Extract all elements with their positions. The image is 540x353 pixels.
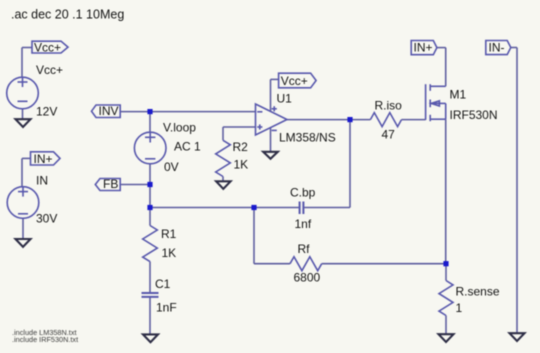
svg-text:12V: 12V bbox=[36, 105, 57, 119]
svg-text:1K: 1K bbox=[234, 158, 249, 172]
svg-text:R.sense: R.sense bbox=[456, 285, 500, 299]
svg-text:30V: 30V bbox=[36, 212, 57, 226]
svg-text:1nf: 1nf bbox=[295, 217, 312, 231]
svg-text:1: 1 bbox=[456, 301, 463, 315]
svg-text:1K: 1K bbox=[162, 246, 177, 260]
svg-text:AC 1: AC 1 bbox=[174, 140, 201, 154]
svg-text:R.iso: R.iso bbox=[375, 99, 403, 113]
svg-text:6800: 6800 bbox=[294, 271, 321, 285]
svg-text:C.bp: C.bp bbox=[290, 186, 316, 200]
svg-text:R1: R1 bbox=[161, 227, 177, 241]
svg-text:47: 47 bbox=[382, 128, 396, 142]
svg-text:INV: INV bbox=[99, 104, 119, 118]
svg-text:U1: U1 bbox=[277, 92, 293, 106]
svg-text:.ac dec 20 .1 10Meg: .ac dec 20 .1 10Meg bbox=[11, 8, 124, 22]
svg-text:IN+: IN+ bbox=[34, 152, 53, 166]
svg-text:R2: R2 bbox=[233, 140, 249, 154]
svg-text:1nF: 1nF bbox=[156, 301, 177, 315]
svg-text:V.loop: V.loop bbox=[163, 121, 196, 135]
svg-text:C1: C1 bbox=[155, 277, 171, 291]
svg-text:IN: IN bbox=[36, 174, 48, 188]
svg-text:.include IRF530N.txt: .include IRF530N.txt bbox=[12, 335, 78, 344]
svg-text:Vcc+: Vcc+ bbox=[36, 63, 63, 77]
svg-text:Rf: Rf bbox=[298, 242, 311, 256]
svg-text:Vcc+: Vcc+ bbox=[34, 40, 61, 54]
svg-text:FB: FB bbox=[103, 177, 118, 191]
svg-text:IN-: IN- bbox=[489, 41, 505, 55]
svg-text:0V: 0V bbox=[164, 160, 179, 174]
svg-text:IRF530N: IRF530N bbox=[450, 108, 498, 122]
svg-text:IN+: IN+ bbox=[414, 41, 433, 55]
svg-text:M1: M1 bbox=[450, 88, 467, 102]
svg-text:Vcc+: Vcc+ bbox=[281, 74, 308, 88]
svg-text:LM358/NS: LM358/NS bbox=[279, 131, 336, 145]
